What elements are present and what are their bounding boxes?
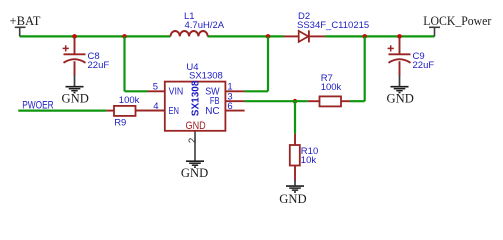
pin 2 GND (186, 120, 206, 161)
svg-text:EN: EN (169, 106, 180, 117)
port +BAT (10, 14, 41, 37)
junction C8 node (72, 34, 77, 39)
wire R10 drop (294, 101, 296, 133)
svg-text:LOCK_Power: LOCK_Power (423, 14, 492, 28)
wire FB net (245, 100, 308, 102)
svg-text:GND: GND (62, 92, 89, 106)
svg-text:SX1308: SX1308 (191, 80, 202, 116)
ground GND (under U4 pin 2) (181, 161, 208, 180)
junction SW node (266, 34, 271, 39)
pin 1 SW (205, 82, 244, 98)
svg-text:6: 6 (227, 101, 232, 112)
resistor R7 (308, 96, 350, 106)
svg-text:GND: GND (387, 92, 414, 106)
capacitor C9 (388, 37, 411, 76)
ground GND (under C8) (62, 75, 89, 105)
svg-text:NC: NC (205, 106, 219, 117)
resistor R10 (290, 134, 300, 181)
wire PWOER net (18, 109, 106, 111)
port LOCK_Power (423, 14, 492, 37)
svg-text:22uF: 22uF (413, 60, 435, 71)
pin 5 VIN (148, 82, 184, 98)
svg-text:GND: GND (181, 166, 208, 180)
svg-text:2: 2 (188, 137, 199, 143)
wire VIN drop (125, 36, 148, 91)
svg-text:4.7uH/2A: 4.7uH/2A (185, 20, 225, 31)
wire SW riser (245, 36, 268, 91)
junction VIN node (122, 34, 127, 39)
svg-text:10k: 10k (301, 155, 317, 166)
svg-text:4: 4 (153, 101, 158, 112)
svg-text:VIN: VIN (169, 87, 184, 98)
svg-text:SX1308: SX1308 (189, 71, 223, 82)
ground GND (under R10) (279, 180, 306, 206)
pin 4 EN (136, 101, 180, 117)
svg-text:+BAT: +BAT (10, 14, 41, 28)
junction C9 node (397, 34, 402, 39)
ground GND (under C9) (387, 75, 414, 105)
inductor L1 (171, 31, 208, 36)
svg-text:100k: 100k (321, 82, 342, 93)
wire +BAT rail top (20, 35, 435, 37)
wire R7 to output riser (350, 36, 365, 101)
svg-text:SS34F_C110215: SS34F_C110215 (297, 20, 369, 31)
svg-text:GND: GND (279, 192, 306, 206)
svg-text:5: 5 (153, 82, 158, 93)
pin 6 NC (205, 101, 244, 117)
diode D2 (284, 30, 326, 42)
IC U4 SX1308 body (165, 82, 226, 131)
svg-text:100k: 100k (119, 95, 140, 106)
capacitor C8 (63, 37, 86, 76)
junction FB node (293, 99, 298, 104)
resistor R9 (106, 106, 164, 116)
svg-text:R9: R9 (114, 117, 126, 128)
svg-text:GND: GND (186, 120, 206, 132)
pin 3 FB (210, 92, 245, 108)
svg-text:22uF: 22uF (88, 60, 110, 71)
junction R7 output node (362, 34, 367, 39)
svg-text:PWOER: PWOER (22, 99, 54, 111)
